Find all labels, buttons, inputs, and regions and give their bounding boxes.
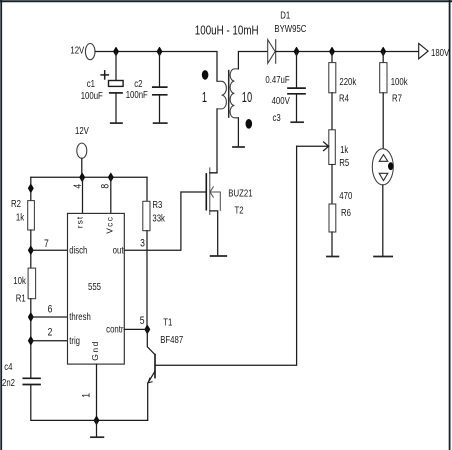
resistor R7 (380, 63, 387, 93)
ground transformer secondary (233, 146, 244, 148)
transistor T2 body line (210, 192, 220, 211)
node thresh junction (28, 313, 33, 321)
svg-text:100k: 100k (391, 76, 408, 87)
arrow 180V output (419, 43, 428, 58)
wire R7 to lamp (382, 93, 384, 149)
wiper arrow R5 (297, 142, 329, 151)
wire disch pin 7 (31, 249, 68, 251)
svg-text:Gnd: Gnd (90, 341, 100, 360)
svg-text:180V: 180V (431, 47, 449, 58)
svg-text:1: 1 (202, 89, 207, 106)
wire ground stem (96, 420, 98, 437)
svg-text:c3: c3 (273, 112, 281, 123)
lamp tube envelope (372, 149, 393, 185)
transistor T1 base wire (147, 329, 155, 354)
svg-text:R7: R7 (392, 92, 402, 103)
svg-text:100uF: 100uF (81, 90, 104, 101)
lamp anode triangle (379, 155, 388, 162)
node Vcc junction (108, 173, 113, 181)
connector 12V supply 555 (77, 143, 87, 158)
wire out pin 3 to gate (124, 192, 206, 250)
svg-text:7: 7 (44, 238, 49, 250)
wire R4 top lead (331, 52, 333, 63)
wire R3 top lead (146, 177, 148, 201)
wire 555 supply rail (31, 176, 147, 178)
diode D1 triangle (268, 40, 275, 64)
svg-text:0.47uF: 0.47uF (265, 74, 290, 85)
resistor R6 (329, 204, 336, 232)
svg-text:3: 3 (140, 238, 145, 250)
wire c2 top lead (159, 52, 161, 87)
node trig junction (28, 337, 33, 345)
svg-text:1: 1 (81, 393, 93, 398)
svg-text:R4: R4 (339, 92, 349, 103)
wire c1 top lead (115, 52, 117, 81)
svg-text:c2: c2 (134, 78, 142, 89)
transistor T2 drain lead (210, 172, 217, 174)
wire thresh pin 6 (31, 316, 68, 318)
wire R1 to c4 (30, 299, 32, 378)
node c3 junction (294, 47, 299, 55)
svg-text:R3: R3 (152, 199, 162, 210)
node disch junction (28, 246, 33, 254)
wire 180V rail (276, 51, 419, 53)
node ground junction (94, 416, 99, 424)
svg-text:470: 470 (339, 190, 352, 201)
transistor T2 gate bar (205, 173, 207, 210)
potentiometer R5 (329, 130, 336, 165)
transistor T1 base bar (154, 354, 156, 379)
wire R3 bottom to contr (146, 231, 148, 330)
svg-text:BUZ21: BUZ21 (228, 188, 252, 199)
node c2 junction (157, 47, 162, 55)
svg-text:R1: R1 (16, 292, 26, 303)
resistor R4 (329, 63, 336, 93)
connector 12V input (85, 44, 95, 60)
node rst junction (80, 173, 85, 181)
wire R7 top lead (382, 52, 384, 63)
wire left column upper (30, 177, 32, 200)
node R7 junction (381, 47, 386, 55)
wire c3 to ground (296, 94, 298, 122)
wire Vcc pin (110, 177, 112, 213)
transformer core (228, 70, 230, 118)
lamp dot (388, 162, 393, 170)
frame left border (0, 0, 2, 450)
ground c2 (154, 122, 167, 124)
wire c3 top lead (296, 52, 298, 88)
svg-text:contr: contr (106, 324, 123, 335)
wire secondary top lead (238, 52, 267, 69)
svg-text:T1: T1 (163, 316, 172, 327)
svg-text:6: 6 (48, 303, 53, 315)
node R4 junction (330, 47, 335, 55)
wire R2 to R1 (30, 230, 32, 268)
node contr junction (145, 325, 150, 333)
capacitor C2 plates (153, 87, 167, 95)
transistor T1 emitter (148, 371, 155, 420)
op-amp U1 555 box (68, 213, 125, 364)
resistor R2 (28, 201, 35, 230)
ground lamp (374, 256, 392, 258)
wire c1 to ground (115, 93, 117, 123)
svg-text:T2: T2 (235, 204, 244, 215)
transistor T2 channel bar (209, 167, 211, 215)
wire R6 to ground (331, 232, 333, 256)
wire secondary bottom lead (237, 118, 239, 147)
wire lamp to ground (382, 185, 384, 257)
wire 12V rail to transformer primary (95, 52, 217, 82)
svg-text:R5: R5 (339, 157, 349, 168)
svg-text:thresh: thresh (69, 311, 91, 322)
resistor R3 (143, 201, 150, 230)
frame right border (449, 0, 451, 450)
wire rst pin (82, 177, 84, 213)
node c1 junction (114, 47, 119, 55)
svg-text:out: out (113, 244, 124, 255)
lamp cathode triangle (379, 173, 388, 180)
svg-text:220k: 220k (339, 76, 356, 87)
ground T2 source (211, 255, 227, 257)
transistor T2 body arrow (210, 186, 214, 197)
ground c3 (291, 121, 303, 123)
capacitor C1 bottom plate (110, 92, 122, 94)
svg-text:rst: rst (74, 216, 84, 228)
svg-text:R6: R6 (341, 207, 351, 218)
ground R6 (327, 256, 339, 258)
resistor R1 (28, 268, 35, 299)
svg-text:R2: R2 (11, 198, 21, 209)
node R2 top junction (28, 184, 33, 192)
wire R4 to R5 (331, 93, 333, 130)
transformer primary winding (217, 81, 226, 109)
transistor T2 source lead (210, 211, 218, 256)
transistor T1 emitter arrow (148, 378, 153, 383)
transformer secondary polarity dot (246, 119, 253, 129)
capacitor C1 plus sign (100, 70, 109, 80)
svg-text:2n2: 2n2 (2, 377, 15, 388)
wire R5 to R6 (331, 165, 333, 205)
svg-text:2: 2 (48, 327, 53, 339)
wire primary bottom lead to MOSFET drain (210, 109, 217, 173)
svg-text:12V: 12V (70, 45, 84, 56)
svg-text:Vcc: Vcc (105, 216, 115, 234)
svg-text:10k: 10k (13, 275, 26, 286)
svg-text:10: 10 (242, 89, 252, 106)
svg-text:c1: c1 (87, 78, 95, 89)
wire wiper to T1 collector (155, 146, 296, 365)
svg-text:12V: 12V (75, 125, 89, 136)
wire c4 to bottom rail (31, 385, 148, 421)
ground bottom rail (91, 436, 104, 438)
capacitor C3 plates (288, 88, 305, 94)
wire trig pin 2 (31, 340, 68, 342)
svg-text:555: 555 (88, 281, 101, 292)
svg-text:100nF: 100nF (126, 89, 149, 100)
svg-text:D1: D1 (280, 10, 290, 21)
frame top border (0, 0, 452, 2)
svg-text:33k: 33k (152, 213, 165, 224)
svg-text:disch: disch (69, 244, 87, 255)
svg-text:trig: trig (69, 335, 80, 346)
svg-text:1k: 1k (16, 211, 25, 222)
transformer secondary winding (230, 69, 238, 118)
wire 12V stem (81, 158, 83, 177)
ground c1 (111, 122, 122, 124)
svg-text:8: 8 (99, 183, 111, 188)
wire 555 gnd pin 1 (96, 364, 98, 420)
svg-text:c4: c4 (4, 361, 12, 372)
wire contr pin 5 (124, 328, 147, 330)
svg-text:BF487: BF487 (160, 334, 183, 345)
svg-text:1k: 1k (340, 144, 349, 155)
svg-text:BYW95C: BYW95C (274, 23, 306, 34)
svg-text:100uH - 10mH: 100uH - 10mH (195, 24, 259, 37)
svg-text:5: 5 (140, 315, 145, 327)
capacitor C4 plates (23, 378, 40, 384)
diode D1 cathode bar (275, 39, 277, 64)
wire c2 to ground (159, 95, 161, 123)
svg-text:400V: 400V (272, 95, 290, 106)
transformer primary polarity dot (202, 70, 209, 80)
capacitor C1 box plate (109, 81, 124, 87)
